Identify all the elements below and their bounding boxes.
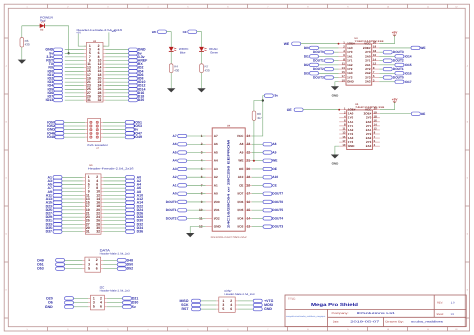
svg-text:VIN: VIN — [112, 30, 116, 33]
net flag A8 (U4 pin 23) — [252, 142, 277, 146]
svg-text:A7: A7 — [214, 134, 218, 138]
net flag IO51 (U7 right pin 2) — [103, 120, 142, 124]
net flag A2 (H1 right pin 4) — [104, 179, 142, 183]
svg-text:6: 6 — [100, 305, 102, 309]
svg-text:I/O1: I/O1 — [214, 208, 220, 212]
svg-text:CE: CE — [272, 183, 276, 187]
ground GND — [331, 155, 339, 166]
svg-text:Sheet:: Sheet: — [437, 313, 445, 316]
svg-text:A9: A9 — [239, 150, 243, 154]
net flag 5v (H2 left pin 5) — [49, 51, 84, 55]
svg-text:32: 32 — [98, 98, 102, 102]
svg-text:3: 3 — [107, 5, 108, 8]
svg-text:5v: 5v — [275, 94, 279, 98]
IC U3 74HC244PW,118 — [339, 37, 385, 85]
net flag IO3 (H2 left pin 21) — [48, 80, 84, 84]
svg-text:430: 430 — [174, 68, 179, 72]
svg-text:GND: GND — [45, 305, 53, 309]
svg-text:DOUT3: DOUT3 — [393, 50, 404, 54]
svg-text:OE: OE — [239, 167, 243, 171]
svg-text:GND: GND — [214, 225, 222, 229]
svg-text:DI3: DI3 — [304, 71, 309, 75]
svg-text:IO13: IO13 — [46, 98, 54, 102]
svg-text:Blue: Blue — [180, 50, 186, 54]
svg-text:Header-Male-2.54_2x3: Header-Male-2.54_2x3 — [100, 289, 131, 292]
svg-text:6: 6 — [230, 307, 232, 311]
net flag A9 (H1 left pin 9) — [48, 190, 83, 194]
junction at U3 pin1 — [338, 43, 340, 45]
net flag D24 (H1 right pin 20) — [104, 208, 144, 212]
net flag DOUT1 (U3 left) — [313, 59, 339, 63]
net flag IO0 (H2 left pin 15) — [48, 69, 84, 73]
svg-text:A0: A0 — [214, 192, 218, 196]
header ICSP Header-Male-2.54_2x3 — [216, 289, 255, 313]
svg-text:DI0: DI0 — [304, 46, 309, 50]
net flag A10 (U4 pin 19) — [252, 175, 279, 179]
resistor R4 430 — [169, 64, 179, 73]
net flag 3.3v (H2 left pin 7) — [46, 55, 84, 59]
svg-text:Drawn By:: Drawn By: — [385, 320, 404, 323]
net flag A15 (H1 left pin 15) — [46, 201, 83, 205]
net flag RX (H2 right pin 12) — [106, 62, 144, 66]
net flag D34 (H1 right pin 30) — [104, 226, 144, 230]
svg-text:A2: A2 — [214, 175, 218, 179]
net flag 5v (U7 right pin 6) — [103, 128, 138, 132]
svg-text:DOUT1: DOUT1 — [166, 208, 177, 212]
wire R7 to ground — [201, 73, 203, 89]
net flag A7 (H1 left pin 7) — [48, 186, 83, 190]
net flag IO4 (H2 left pin 23) — [48, 84, 84, 88]
net flag IO13 (H2 left pin 31) — [46, 98, 84, 102]
power flag +5V (U3 VCC) — [392, 31, 399, 37]
net flag A2 (U4 pin 6) — [173, 175, 206, 179]
net flag IO4 (H2 right pin 16) — [106, 69, 144, 73]
ground — [18, 60, 26, 64]
svg-text:DOUT1: DOUT1 — [393, 67, 404, 71]
svg-text:DOUT2: DOUT2 — [393, 59, 404, 63]
net flag IO14 (U3 right) — [379, 54, 412, 58]
net flag DOUT4 (U4 pin 14) — [252, 216, 284, 220]
svg-text:5: 5 — [222, 307, 224, 311]
net flag DOUT1 (U4 pin 10) — [166, 208, 206, 212]
net flag RST (ICSP left pin 5) — [182, 307, 217, 311]
svg-text:A1: A1 — [214, 183, 218, 187]
svg-text:10: 10 — [387, 328, 389, 331]
svg-text:I/O4: I/O4 — [238, 216, 244, 220]
wire OE to LED — [197, 32, 202, 48]
svg-text:DOUT4: DOUT4 — [272, 216, 283, 220]
svg-text:IO16: IO16 — [405, 71, 412, 75]
svg-text:A10: A10 — [272, 175, 278, 179]
svg-text:12: 12 — [455, 5, 457, 8]
svg-text:A8: A8 — [272, 142, 276, 146]
svg-text:7: 7 — [267, 5, 268, 8]
title block — [285, 295, 466, 327]
net flag DOUT0 (U3 left) — [313, 50, 339, 54]
net flag IO1 (H2 left pin 17) — [48, 73, 84, 77]
net flag DOUT2 (U4 pin 11) — [166, 216, 206, 220]
net flag DI2 (U3 left) — [304, 63, 339, 67]
net flag IO46 (U7 left pin 7) — [47, 131, 85, 135]
net flag IO50 (U7 left pin 1) — [47, 120, 85, 124]
svg-text:DOUT5: DOUT5 — [272, 208, 283, 212]
svg-text:I/O5: I/O5 — [238, 208, 244, 212]
svg-text:2019-05-07: 2019-05-07 — [350, 320, 380, 323]
svg-text:I/O3: I/O3 — [238, 225, 244, 229]
svg-text:8: 8 — [307, 328, 308, 331]
svg-text:OE: OE — [272, 167, 277, 171]
svg-text:IO48: IO48 — [47, 135, 55, 139]
svg-text:A0: A0 — [173, 192, 177, 196]
svg-text:D53: D53 — [37, 267, 43, 271]
svg-text:GND: GND — [332, 94, 340, 98]
net flag DI0 (U3 left) — [304, 46, 339, 50]
net flag A1 (U4 pin 7) — [173, 183, 206, 187]
net flag D33 (H1 left pin 27) — [46, 222, 83, 226]
svg-text:1.0: 1.0 — [451, 302, 455, 305]
svg-text:IO17: IO17 — [405, 80, 412, 84]
wire R4 to ground — [170, 73, 172, 89]
svg-text:Header-Male-2.54_2x3: Header-Male-2.54_2x3 — [225, 293, 256, 296]
net flag D30 (H1 right pin 26) — [104, 219, 144, 223]
net flag D31 (H1 left pin 25) — [46, 219, 83, 223]
net flag DOUT2 (U3 left) — [313, 67, 339, 71]
svg-text:D37: D37 — [46, 230, 52, 234]
svg-text:9: 9 — [347, 5, 348, 8]
svg-text:DOUT2: DOUT2 — [313, 67, 324, 71]
net flag A7 (U4 pin 1) — [173, 134, 206, 138]
net flag WE — [152, 30, 167, 34]
ground — [167, 88, 175, 92]
svg-text:DOUT0: DOUT0 — [313, 50, 324, 54]
net flag DOUT3 (U3 left) — [313, 76, 339, 80]
svg-text:11: 11 — [427, 5, 429, 8]
svg-text:CE: CE — [239, 183, 243, 187]
net flag A1 (H1 left pin 1) — [48, 175, 83, 179]
net flag A14 (H1 right pin 16) — [104, 201, 144, 205]
net flag A3 (H1 left pin 3) — [48, 179, 83, 183]
svg-text:4: 4 — [147, 328, 148, 331]
net flag IO53 (U7 right pin 4) — [103, 124, 142, 128]
svg-text:OE: OE — [287, 108, 293, 112]
svg-text:A10: A10 — [238, 175, 244, 179]
net flag D36 (H1 right pin 32) — [104, 230, 144, 234]
wire WE to LED — [167, 32, 172, 48]
net flag 5v (I2C right pin 6) — [107, 305, 136, 309]
svg-text:D20: D20 — [138, 98, 144, 102]
net flag D50 (DATA right pin 4) — [103, 262, 133, 266]
net flag SCK (ICSP left pin 3) — [181, 303, 216, 307]
svg-text:A2: A2 — [173, 175, 177, 179]
wire LED to R4 — [170, 51, 172, 63]
svg-text:WE: WE — [272, 159, 277, 163]
svg-text:24C16/28C64 or 28C256 EEPROM: 24C16/28C64 or 28C256 EEPROM — [227, 139, 231, 228]
net flag A13 (H1 left pin 13) — [46, 197, 83, 201]
net flag IO6 (H2 right pin 18) — [106, 73, 144, 77]
net flag DOUT2 (U3 right) — [379, 59, 404, 63]
net flag CE (U4 pin 18) — [252, 183, 277, 187]
svg-text:5: 5 — [88, 267, 90, 271]
svg-text:1/1: 1/1 — [451, 313, 455, 316]
svg-text:OE: OE — [421, 112, 426, 116]
net flag GND (H2 left pin 3) — [45, 48, 83, 52]
net flag A5 (U4 pin 3) — [173, 150, 206, 154]
svg-text:WE: WE — [284, 42, 290, 46]
svg-text:DOUT7: DOUT7 — [272, 192, 283, 196]
svg-text:DS1009-24AT7WX-0A2: DS1009-24AT7WX-0A2 — [211, 236, 248, 239]
wire +5V to H2 pin1 — [78, 34, 86, 46]
net flag A6 (H1 right pin 8) — [104, 186, 142, 190]
wire +5V to VCC pin 24 — [252, 96, 264, 136]
net flag MOSI (ICSP right pin 4) — [238, 303, 273, 307]
svg-text:A4: A4 — [214, 159, 218, 163]
LED READ Green — [199, 47, 218, 55]
svg-text:REV:: REV: — [437, 302, 443, 305]
svg-text:6: 6 — [96, 267, 98, 271]
net flag D48 (DATA right pin 2) — [103, 258, 133, 262]
svg-text:A4: A4 — [173, 159, 177, 163]
net flag TX (H2 left pin 11) — [49, 62, 84, 66]
LED D2 POWER Red — [40, 15, 54, 31]
net flag OE (U5 pin 19) — [380, 112, 425, 116]
header DATA Header-Male-2.54_2x3 — [82, 249, 130, 273]
net flag A0 (H1 right pin 2) — [104, 175, 142, 179]
net flag D27 (H1 left pin 21) — [46, 212, 83, 216]
svg-text:1: 1 — [26, 5, 27, 8]
svg-text:A6: A6 — [214, 142, 218, 146]
svg-text:6: 6 — [227, 328, 228, 331]
wire U4 GND pin12 — [190, 227, 205, 233]
svg-text:DI2: DI2 — [304, 63, 309, 67]
net flag IO17 (U3 right) — [379, 80, 412, 84]
svg-text:WE: WE — [420, 46, 425, 50]
svg-text:RST: RST — [182, 307, 190, 311]
junction — [262, 99, 264, 101]
svg-text:A6: A6 — [173, 142, 177, 146]
net flag D20 (H2 right pin 32) — [106, 98, 145, 102]
svg-text:2: 2 — [67, 328, 68, 331]
net flag DOUT5 (U4 pin 15) — [252, 208, 284, 212]
net flag D49 (DATA left pin 1) — [37, 258, 82, 262]
wire U3 GND to ground — [335, 82, 339, 87]
net flag GND (H2 right pin 4) — [106, 48, 147, 52]
net flag DOUT0 (U3 right) — [379, 76, 404, 80]
svg-text:32: 32 — [96, 230, 100, 234]
svg-text:D36: D36 — [137, 230, 143, 234]
net flag IO12 (H2 right pin 24) — [106, 84, 146, 88]
net flag D53 (DATA left pin 5) — [37, 267, 82, 271]
net flag A4 (H1 right pin 6) — [104, 183, 142, 187]
net flag A5 (H1 left pin 5) — [48, 183, 83, 187]
wire OE to U5 pin1 — [303, 109, 339, 111]
net flag MISO (ICSP left pin 1) — [180, 299, 217, 303]
net flag A6 (U4 pin 2) — [173, 142, 206, 146]
net flag RST (H2 left pin 9) — [46, 59, 84, 63]
svg-text:TITLE:: TITLE: — [288, 297, 296, 300]
wire VCC to +5V — [380, 102, 395, 110]
svg-text:10: 10 — [342, 78, 346, 82]
net flag DI1 (U3 left) — [304, 54, 339, 58]
net flag GND (ICSP right pin 6) — [238, 307, 273, 311]
svg-text:4: 4 — [147, 5, 148, 8]
net flag +VTG (ICSP right pin 2) — [238, 299, 274, 303]
svg-text:A5: A5 — [214, 150, 218, 154]
net flag D51 (DATA left pin 3) — [37, 262, 82, 266]
svg-text:5: 5 — [187, 5, 188, 8]
net flag IO8 (H2 right pin 20) — [106, 77, 144, 81]
svg-text:430: 430 — [25, 43, 30, 47]
net flag OE (U5 pin 1) — [287, 108, 303, 112]
net flag D25 (H1 left pin 19) — [46, 208, 83, 212]
net flag IO2 (H2 left pin 19) — [48, 77, 84, 81]
svg-text:DOUT2: DOUT2 — [166, 216, 177, 220]
net flag WE (U3 pin 1) — [284, 42, 301, 46]
svg-text:1: 1 — [26, 328, 27, 331]
svg-text:Header-Female-2.54_2x16: Header-Female-2.54_2x16 — [88, 167, 134, 171]
net flag DOUT1 (U3 right) — [379, 67, 404, 71]
wire VIN to H2 pin2 — [103, 32, 109, 46]
wire R6 to ground — [21, 47, 23, 60]
svg-text:VCC: VCC — [237, 134, 244, 138]
junction on WE row — [253, 160, 255, 162]
svg-text:IDSolutions Ltd.: IDSolutions Ltd. — [357, 312, 396, 315]
svg-text:31: 31 — [87, 98, 91, 102]
svg-text:2A3: 2A3 — [366, 144, 372, 148]
svg-text:DI1: DI1 — [304, 54, 309, 58]
svg-text:D52: D52 — [127, 267, 133, 271]
svg-text:5: 5 — [187, 328, 188, 331]
net flag D30 (I2C right pin 4) — [107, 301, 138, 305]
net flag DOUT0 (U4 pin 9) — [166, 200, 206, 204]
net flag IO52 (U7 left pin 3) — [47, 124, 85, 128]
power flag +5V — [76, 32, 81, 35]
net flag +5V (pull-up) — [264, 94, 278, 98]
net flag IO2 (H2 right pin 14) — [106, 66, 144, 70]
svg-text:A7: A7 — [173, 134, 177, 138]
svg-text:A5: A5 — [173, 150, 177, 154]
net flag GND (I2C left pin 5) — [45, 305, 88, 309]
svg-text:IO15: IO15 — [405, 63, 412, 67]
svg-text:A1: A1 — [173, 183, 177, 187]
svg-text:9: 9 — [347, 328, 348, 331]
svg-text:+5V: +5V — [392, 31, 399, 35]
svg-text:6: 6 — [227, 5, 228, 8]
net flag D26 (H1 right pin 22) — [104, 212, 144, 216]
svg-text:8: 8 — [307, 5, 308, 8]
net flag 5v (H2 right pin 6) — [106, 51, 142, 55]
resistor R6 430 — [20, 38, 30, 47]
net flag A11 (H1 left pin 11) — [46, 193, 83, 197]
svg-text:Mega Pro Shield: Mega Pro Shield — [311, 302, 358, 307]
net flag DOUT3 (U3 right) — [379, 50, 404, 54]
svg-text:4k7: 4k7 — [257, 116, 262, 120]
svg-text:DOUT0: DOUT0 — [393, 76, 404, 80]
svg-text:A3: A3 — [173, 167, 177, 171]
net flag D28 (H1 right pin 24) — [104, 215, 144, 219]
net flag D20 (I2C left pin 1) — [46, 296, 88, 300]
svg-text:3: 3 — [107, 328, 108, 331]
svg-text:10: 10 — [387, 5, 389, 8]
wire R8 to WE row — [253, 120, 255, 160]
junction on 5v row — [68, 52, 70, 54]
svg-text:31: 31 — [86, 230, 90, 234]
IC U5 74HC244PW,118 — [339, 103, 385, 150]
net flag IO15 (U3 right) — [379, 63, 412, 67]
svg-text:Red: Red — [40, 19, 46, 23]
net flag DI3 (U3 left) — [304, 71, 339, 75]
net flag IO7 (H2 left pin 29) — [48, 95, 84, 99]
wire VCC to +5V — [379, 35, 394, 44]
svg-text:GND: GND — [348, 144, 356, 148]
net flag IO47 (U7 right pin 8) — [103, 131, 142, 135]
net flag IO10 (H2 right pin 22) — [106, 80, 146, 84]
header I2C Header-Male-2.54_2x3 — [88, 285, 130, 310]
header H2 Header-Female-2.54_2x16 — [77, 28, 123, 102]
net flag D16 (H2 right pin 28) — [106, 91, 145, 95]
svg-text:GND: GND — [332, 161, 340, 165]
svg-text:+5V: +5V — [392, 97, 399, 101]
net flag A3 (U4 pin 5) — [173, 167, 206, 171]
svg-text:DOUT1: DOUT1 — [313, 59, 324, 63]
net flag D32 (H1 right pin 28) — [104, 222, 144, 226]
svg-text:OE: OE — [183, 30, 187, 34]
resistor R8 4k7 — [252, 111, 262, 120]
svg-text:A3: A3 — [214, 167, 218, 171]
svg-text:+5V: +5V — [76, 32, 81, 35]
svg-text:2x5 Header: 2x5 Header — [87, 144, 108, 147]
svg-text:5: 5 — [93, 305, 95, 309]
net flag A10 (H1 right pin 12) — [104, 193, 144, 197]
power flag VIN — [112, 30, 116, 33]
svg-text:easyeda.com/scuba_maldives_meg: easyeda.com/scuba_maldives_megapro — [286, 315, 326, 318]
svg-text:I/O7: I/O7 — [238, 192, 244, 196]
svg-text:12: 12 — [455, 328, 457, 331]
svg-text:DOUT0: DOUT0 — [166, 200, 177, 204]
resistor R7 430 — [200, 64, 210, 73]
header U7 2x5 Header — [85, 118, 108, 149]
ground — [197, 88, 205, 92]
net flag D23 (H1 left pin 17) — [46, 204, 83, 208]
net flag IO5 (H2 left pin 25) — [48, 87, 84, 91]
svg-text:Date:: Date: — [333, 320, 339, 323]
net flag A8 (H1 right pin 10) — [104, 190, 142, 194]
svg-text:scuba_maldives: scuba_maldives — [411, 320, 444, 323]
net flag DOUT3 (U4 pin 13) — [252, 225, 284, 229]
net flag IO14 (H2 right pin 26) — [106, 87, 146, 91]
net flag D6 (I2C left pin 3) — [48, 301, 88, 305]
svg-text:Header-Male-2.54_2x3: Header-Male-2.54_2x3 — [100, 253, 131, 256]
net flag IO49 (U7 right pin 10) — [103, 135, 142, 139]
svg-text:2A3: 2A3 — [365, 80, 371, 84]
svg-text:430: 430 — [205, 68, 210, 72]
net flag DOUT6 (U4 pin 16) — [252, 200, 284, 204]
svg-text:DOUT3: DOUT3 — [313, 76, 324, 80]
wire WE to U3 pin1 — [301, 43, 339, 45]
svg-text:GND: GND — [264, 307, 272, 311]
net flag RX (H2 left pin 13) — [48, 66, 84, 70]
net flag D35 (H1 left pin 29) — [46, 226, 83, 230]
net flag D52 (DATA right pin 6) — [103, 267, 133, 271]
svg-text:IO49: IO49 — [134, 135, 142, 139]
junction at U5 pin1 — [338, 109, 340, 111]
power flag +5V (U5 VCC) — [392, 97, 399, 103]
net flag WE (U3 pin 19) — [379, 46, 425, 50]
wire U5 GND to ground — [335, 146, 339, 154]
svg-text:I/O6: I/O6 — [238, 200, 244, 204]
svg-text:5v: 5v — [132, 305, 136, 309]
ground — [186, 233, 194, 237]
net flag IO16 (U3 right) — [379, 71, 412, 75]
